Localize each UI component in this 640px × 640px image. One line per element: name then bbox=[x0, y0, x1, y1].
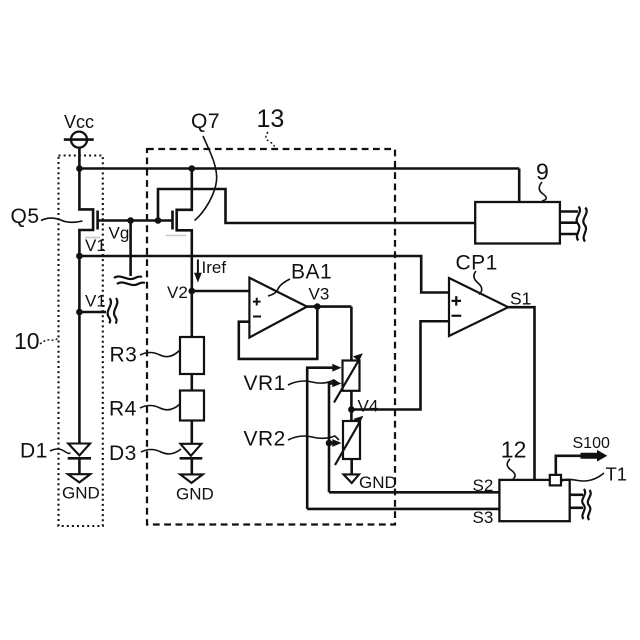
svg-text:Vg: Vg bbox=[109, 224, 130, 243]
break squiggle V1 stub bbox=[108, 298, 111, 323]
wire V1 rail to CP1 + input bbox=[79, 256, 449, 293]
wire T1 to S100 arrow bbox=[556, 456, 581, 475]
wire D3 to ground bbox=[191, 458, 194, 474]
wire V2 to BA1 + input bbox=[192, 290, 250, 293]
terminal T1 bbox=[550, 475, 561, 486]
svg-text:Iref: Iref bbox=[202, 258, 227, 277]
svg-text:R4: R4 bbox=[109, 398, 137, 421]
junction dot V2 bbox=[189, 288, 196, 295]
block 9 right pins bbox=[560, 210, 578, 213]
wire top rail drop to block 9 bbox=[518, 169, 521, 203]
wire V4 to CP1 - input bbox=[351, 321, 449, 409]
svg-text:GND: GND bbox=[359, 473, 397, 492]
ground GND under VR2 bbox=[344, 474, 360, 483]
resistor R3 bbox=[180, 337, 204, 374]
dashed box 13 bbox=[147, 149, 395, 525]
junction dot Q7 gate bbox=[155, 217, 162, 224]
junction dot V1 lower bbox=[76, 309, 83, 316]
block 9 bbox=[475, 202, 560, 244]
junction dot V4 bbox=[348, 406, 355, 413]
variable resistor VR1 bbox=[343, 361, 360, 391]
break squiggle block 9 bbox=[577, 207, 580, 241]
node V4 label bbox=[358, 397, 379, 416]
wire V1 stub right bbox=[79, 311, 106, 314]
op-amp BA1 bbox=[249, 278, 307, 338]
wire R4 to D3 bbox=[191, 421, 194, 444]
svg-text:Vcc: Vcc bbox=[64, 112, 94, 132]
svg-text:S1: S1 bbox=[510, 289, 531, 309]
ground GND under D3 bbox=[180, 474, 203, 483]
block 12 right pins bbox=[570, 493, 583, 496]
wire D1 to ground bbox=[78, 458, 81, 474]
wire R3 to R4 bbox=[191, 374, 194, 391]
svg-text:S3: S3 bbox=[473, 508, 494, 527]
svg-text:R3: R3 bbox=[110, 344, 138, 367]
junction dot Vcc node bbox=[76, 165, 83, 172]
svg-text:GND: GND bbox=[176, 485, 214, 504]
svg-text:V1: V1 bbox=[85, 236, 106, 255]
wire top rail bbox=[79, 167, 519, 170]
junction dot V1 bbox=[76, 253, 83, 260]
wire VR1 to V4 bbox=[350, 391, 353, 410]
wire BA1 feedback loop bbox=[239, 307, 317, 359]
wire S2 bbox=[329, 491, 499, 494]
svg-text:12: 12 bbox=[501, 437, 527, 463]
wire VR2 to ground bbox=[350, 459, 353, 474]
svg-text:VR1: VR1 bbox=[244, 372, 286, 395]
svg-text:10: 10 bbox=[14, 328, 40, 354]
faint artifact under Q7 bbox=[166, 235, 186, 237]
svg-text:S100: S100 bbox=[573, 435, 610, 452]
svg-text:D1: D1 bbox=[20, 440, 48, 463]
svg-text:V4: V4 bbox=[358, 397, 379, 416]
svg-text:V3: V3 bbox=[309, 285, 330, 304]
svg-text:VR2: VR2 bbox=[244, 428, 286, 451]
node S1 label bbox=[510, 289, 531, 309]
transistor Q5 bbox=[79, 169, 93, 257]
wire Q5 source down bbox=[78, 256, 81, 312]
svg-text:GND: GND bbox=[62, 484, 100, 503]
wire Q5 gate to Q7 gate (node Vg) bbox=[98, 219, 173, 222]
junction dot Vg bbox=[127, 217, 134, 224]
ground GND under D1 bbox=[68, 474, 90, 482]
svg-text:V1: V1 bbox=[85, 292, 106, 311]
power symbol Vcc bbox=[64, 112, 94, 132]
node Iref current arrow bbox=[197, 260, 199, 279]
control wire S2 to VR1/VR2 bbox=[329, 383, 335, 492]
node V1 label upper bbox=[85, 236, 106, 255]
resistor R4 bbox=[180, 391, 204, 421]
node V2 label bbox=[167, 283, 188, 302]
node V1 label lower bbox=[85, 292, 106, 311]
wire S3 bbox=[307, 508, 499, 511]
junction dot top rail / Q7 drain bbox=[189, 165, 196, 172]
node Vg label bbox=[109, 224, 130, 243]
dashed box 10 bbox=[59, 156, 103, 527]
wire V2 to R3 bbox=[191, 291, 194, 337]
svg-text:D3: D3 bbox=[109, 442, 137, 465]
control wire S3 to VR1 bbox=[307, 368, 335, 509]
svg-text:9: 9 bbox=[536, 159, 549, 185]
comparator CP1 bbox=[449, 278, 508, 336]
break squiggle block 12 bbox=[582, 489, 585, 519]
svg-text:CP1: CP1 bbox=[456, 252, 498, 275]
wire Vcc to top rail bbox=[78, 148, 81, 169]
svg-text:Q5: Q5 bbox=[11, 205, 40, 228]
node V3 label bbox=[309, 285, 330, 304]
label 10 bbox=[14, 328, 40, 354]
svg-text:V2: V2 bbox=[167, 283, 188, 302]
faint artifact under Q5 bbox=[85, 237, 100, 239]
svg-text:13: 13 bbox=[257, 105, 285, 133]
break squiggle Vg stub bbox=[114, 276, 142, 279]
variable resistor VR2 bbox=[343, 421, 360, 459]
wire V3 down to VR1 bbox=[350, 307, 353, 361]
junction dot V3 bbox=[314, 303, 321, 310]
svg-text:S2: S2 bbox=[473, 476, 494, 495]
label 13 bbox=[257, 105, 285, 133]
signal arrow S100 bbox=[581, 450, 608, 462]
wire CP1 output to block 12 bbox=[508, 307, 534, 480]
svg-text:Q7: Q7 bbox=[191, 110, 220, 133]
diode D1 bbox=[68, 444, 90, 456]
svg-text:BA1: BA1 bbox=[291, 261, 332, 284]
wire BA1 output bbox=[307, 305, 351, 308]
svg-text:T1: T1 bbox=[606, 464, 628, 485]
diode D3 bbox=[180, 444, 201, 456]
junction dot VR2 control bbox=[326, 440, 333, 447]
transistor Q7 bbox=[177, 169, 192, 292]
wire V4 to VR2 bbox=[350, 410, 353, 422]
wire Q5 source to D1 bbox=[78, 312, 81, 444]
wire Vg stub down bbox=[129, 221, 132, 277]
block 12 bbox=[499, 480, 569, 521]
wire Vg loop over Q7 to block 9 bbox=[158, 189, 475, 223]
